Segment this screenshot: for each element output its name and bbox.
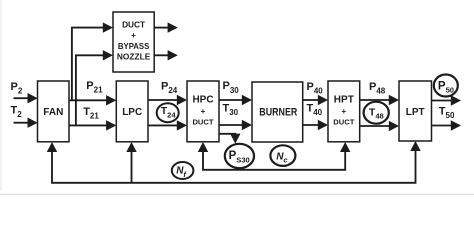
label T50 xyxy=(439,106,455,121)
label P2 xyxy=(11,81,23,96)
sensor ellipse T48 xyxy=(364,102,389,124)
svg-text:DUCT: DUCT xyxy=(333,118,354,127)
arrowhead PS30 down into sensor xyxy=(230,134,240,144)
wire PS30 tap from HPC xyxy=(219,134,235,136)
sensor ellipse T24 xyxy=(157,103,179,122)
block LPC xyxy=(116,81,148,142)
wire bypass nozzle output top xyxy=(154,27,169,29)
arrowhead bypass lower into duct box xyxy=(103,50,113,60)
wire bypass nozzle output bottom xyxy=(154,54,169,56)
wire T2 input xyxy=(14,122,30,124)
svg-text:LPT: LPT xyxy=(406,107,425,118)
block LPT xyxy=(399,81,432,141)
wire Nc shaft feedback xyxy=(203,151,345,170)
wire P21 FAN to LPC xyxy=(69,99,108,101)
wire T30 HPC to BURNER xyxy=(219,124,244,126)
svg-text:HPT: HPT xyxy=(334,95,354,106)
arrowhead P48 into LPT xyxy=(389,95,399,105)
wire P50 LPT output xyxy=(432,100,454,102)
wire T40 BURNER to HPT xyxy=(303,124,320,126)
wire P48 HPT to LPT xyxy=(360,99,391,101)
arrowhead Nc into HPC bottom xyxy=(198,142,208,152)
wire P40 BURNER to HPT xyxy=(303,99,320,101)
label T30 xyxy=(223,103,239,118)
block BURNER xyxy=(252,82,303,142)
wire T48 HPT to LPT xyxy=(360,125,391,127)
label T40 xyxy=(307,103,323,118)
arrowhead Nf into LPT bottom xyxy=(410,141,420,151)
wire Nf branch to LPC xyxy=(131,151,133,183)
svg-text:+: + xyxy=(201,107,206,116)
block HPT + DUCT xyxy=(328,81,360,142)
arrowhead T24 into HPC xyxy=(177,120,187,130)
sensor ellipse P50 xyxy=(434,75,458,97)
block FAN xyxy=(38,81,70,142)
block DUCT + BYPASS NOZZLE xyxy=(113,12,154,72)
label P21 xyxy=(86,80,103,95)
arrowhead T40 into HPT xyxy=(318,120,328,130)
svg-text:DUCT: DUCT xyxy=(192,118,213,127)
arrowhead T30 into BURNER xyxy=(242,120,252,130)
wire branch P21 up to bypass duct xyxy=(72,28,105,101)
svg-text:FAN: FAN xyxy=(43,107,63,118)
arrowhead Nf into LPC bottom xyxy=(126,142,136,152)
label P30 xyxy=(223,80,240,95)
arrowhead Nc into HPT bottom xyxy=(340,142,350,152)
arrowhead P2 into FAN xyxy=(28,93,38,103)
sensor ellipse Nc xyxy=(270,145,295,166)
wire T50 LPT output xyxy=(432,125,454,127)
label T2 xyxy=(11,105,23,120)
wire Nf shaft feedback xyxy=(52,150,416,183)
faint left page border xyxy=(0,0,2,191)
block HPC + DUCT xyxy=(187,81,219,142)
wire P2 input xyxy=(14,97,30,99)
svg-text:BURNER: BURNER xyxy=(259,107,297,119)
svg-text:HPC: HPC xyxy=(192,95,213,106)
svg-text:+: + xyxy=(341,107,346,116)
arrowhead nozzle exit top xyxy=(168,22,178,32)
label P24 xyxy=(161,80,178,95)
svg-text:NOZZLE: NOZZLE xyxy=(117,52,151,62)
label T21 xyxy=(83,106,99,121)
svg-text:+: + xyxy=(131,30,136,40)
wire T21 FAN to LPC xyxy=(69,124,108,126)
arrowhead P24 into HPC xyxy=(177,95,187,105)
wire branch T21 up to bypass duct xyxy=(76,55,105,125)
sensor ellipse Nf xyxy=(172,162,194,179)
arrowhead P30 into BURNER xyxy=(242,95,252,105)
svg-text:BYPASS: BYPASS xyxy=(118,41,150,51)
arrowhead P21 into LPC xyxy=(106,95,116,105)
svg-text:DUCT: DUCT xyxy=(122,19,145,29)
svg-text:LPC: LPC xyxy=(122,107,142,118)
arrowhead T21 into LPC xyxy=(106,120,116,130)
arrowhead Nf into FAN bottom xyxy=(47,142,57,152)
wire P24 LPC to HPC xyxy=(148,99,179,101)
faint bottom rule xyxy=(0,194,474,196)
arrowhead T2 into FAN xyxy=(28,118,38,128)
arrowhead P50 output xyxy=(451,95,461,105)
wire P30 HPC to BURNER xyxy=(219,99,244,101)
sensor ellipse PS30 xyxy=(225,144,254,168)
label P48 xyxy=(369,81,386,96)
label P40 xyxy=(307,81,324,96)
wire T24 LPC to HPC xyxy=(148,124,179,126)
arrowhead nozzle exit bottom xyxy=(168,50,178,60)
arrowhead T50 output xyxy=(451,120,461,130)
arrowhead P40 into HPT xyxy=(318,95,328,105)
arrowhead T48 into LPT xyxy=(389,121,399,131)
arrowhead bypass upper into duct box xyxy=(103,22,113,32)
